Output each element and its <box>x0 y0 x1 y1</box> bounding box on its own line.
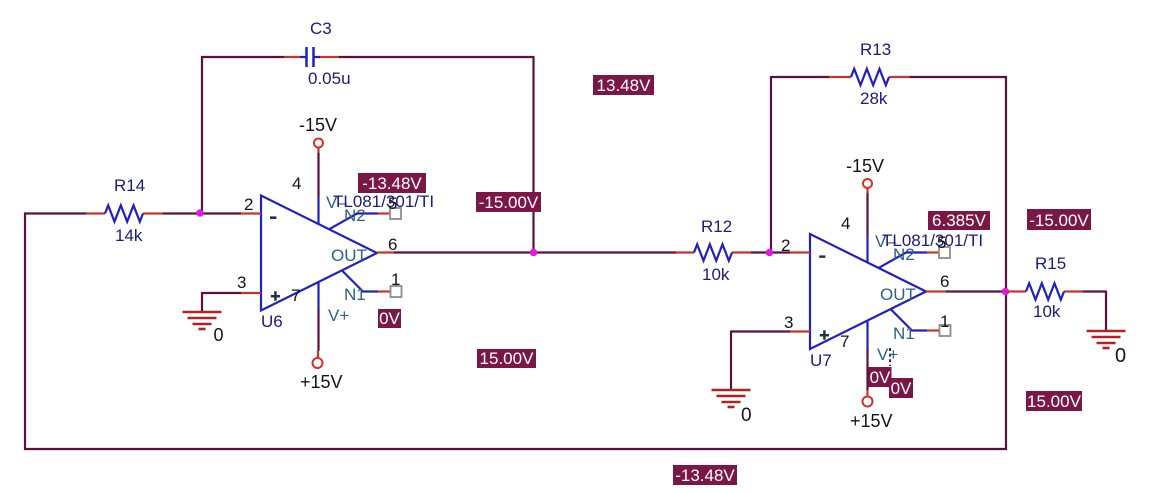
power +15V U6 bubble <box>313 358 323 368</box>
net voltage label -15.00V at U7 <box>1027 209 1091 230</box>
svg-text:6.385V: 6.385V <box>932 211 987 230</box>
svg-text:R13: R13 <box>860 40 891 59</box>
label U7 OUT <box>880 285 916 304</box>
net voltage label 0V second at U7 <box>889 378 913 398</box>
svg-text:-15.00V: -15.00V <box>1029 211 1089 230</box>
svg-text:+15V: +15V <box>850 411 893 431</box>
net voltage label -15.00V at U6 <box>476 192 541 212</box>
label 0 ground R15 <box>1115 345 1126 367</box>
svg-text:1: 1 <box>940 312 949 331</box>
label U7 N1 <box>893 324 915 343</box>
op-amp U7 pin1 terminal <box>940 325 951 336</box>
resistor R12 stubs <box>676 251 751 253</box>
svg-text:1: 1 <box>391 270 400 289</box>
svg-text:-13.48V: -13.48V <box>675 466 735 485</box>
label U6 V- pin name <box>326 193 347 212</box>
svg-text:-15.00V: -15.00V <box>479 193 539 212</box>
label U6 N2 <box>344 206 366 225</box>
label -15V U7 <box>846 156 884 176</box>
op-amp U7 input polarity marks <box>819 255 829 339</box>
junction node U6 output/C3 <box>530 249 537 256</box>
net voltage label 0V first at U7 <box>869 367 892 387</box>
pin number U6 7 <box>291 286 300 305</box>
power +15V U7 tick <box>866 390 868 397</box>
value 14k <box>115 226 143 245</box>
pin number U6 2 <box>244 195 253 214</box>
svg-text:R15: R15 <box>1035 254 1066 273</box>
op-amp U7 N2 pin line <box>878 253 939 269</box>
svg-text:4: 4 <box>292 174 301 193</box>
svg-text:N2: N2 <box>344 206 366 225</box>
ground at U7 pin3 <box>712 390 751 407</box>
pin number U7 6 <box>940 272 949 291</box>
svg-text:3: 3 <box>784 313 793 332</box>
svg-text:4: 4 <box>841 214 850 233</box>
svg-text:7: 7 <box>840 332 849 351</box>
wire W12 C3 right horizontal <box>339 56 535 58</box>
ground at R15 <box>1087 331 1126 348</box>
label U6 V+ <box>328 306 349 325</box>
value 28k <box>860 89 888 108</box>
svg-text:V+: V+ <box>877 345 898 364</box>
label R13 <box>860 40 891 59</box>
net voltage label -13.48V at U6 <box>358 173 426 193</box>
op-amp U7 power pin lines <box>866 234 868 349</box>
op-amp U6 pin3 stub <box>241 292 261 294</box>
pin number U7 1 <box>940 312 949 331</box>
svg-text:10k: 10k <box>1033 302 1061 321</box>
svg-text:13.48V: 13.48V <box>597 76 652 95</box>
wire W2 left rail vertical <box>24 213 26 451</box>
svg-text:0: 0 <box>741 405 752 426</box>
wire W14 R14 right to U6 pin2 <box>163 212 241 214</box>
pin number U7 3 <box>784 313 793 332</box>
pin number U7 5 <box>937 233 946 252</box>
wire W20 U7 V+ supply <box>866 349 868 391</box>
resistor R12 <box>694 244 732 260</box>
wire W7 R13 drop to R12 node <box>770 76 772 253</box>
value 10k R15 <box>1033 302 1061 321</box>
label U6 refdes <box>261 312 283 331</box>
svg-text:6: 6 <box>940 272 949 291</box>
wire W19 U7 V- supply <box>866 193 868 235</box>
label U6 OUT <box>331 246 367 265</box>
wire dashed leader U7 V+ probe <box>889 348 891 366</box>
label U6 N1 <box>344 285 366 304</box>
power +15V U7 bubble <box>863 397 873 407</box>
svg-text:0: 0 <box>214 325 224 345</box>
wire W10 C3 left horizontal <box>201 56 284 58</box>
label +15V U7 <box>850 411 893 431</box>
power -15V U7 tick <box>866 187 868 193</box>
label U6 part TL081/301/TI <box>333 192 434 211</box>
label U7 N2 <box>893 245 915 264</box>
resistor R13 stubs <box>829 76 910 78</box>
label U7 V+ <box>877 345 898 364</box>
wire W4 right rail vertical <box>1005 76 1007 450</box>
label R12 <box>701 217 732 236</box>
power -15V U7 bubble <box>863 179 872 188</box>
net voltage label 15.00V at U6 <box>477 349 536 368</box>
net voltage label 15.00V at U7 <box>1026 391 1082 411</box>
pin number U6 5 <box>388 194 397 213</box>
svg-text:OUT: OUT <box>880 285 916 304</box>
svg-text:0V: 0V <box>870 368 891 387</box>
svg-text:3: 3 <box>237 273 246 292</box>
junction node at R14/C3/pin2 <box>196 209 203 216</box>
label +15V U6 <box>300 372 343 392</box>
wire W17 U6 V+ supply <box>317 310 319 351</box>
value 10k R12 <box>702 265 730 284</box>
svg-text:-15V: -15V <box>299 115 337 135</box>
wire W1 left rail horizontal <box>24 212 86 214</box>
label U7 refdes <box>810 351 832 370</box>
svg-text:OUT: OUT <box>331 246 367 265</box>
wire W3 bottom feedback rail <box>24 448 1007 450</box>
svg-text:C3: C3 <box>310 19 332 38</box>
svg-text:U6: U6 <box>261 312 283 331</box>
op-amp U6 N2 pin line <box>329 214 390 230</box>
label U7 part TL081/301/TI <box>882 231 983 250</box>
wire W15 U6 pin3 to ground <box>202 292 241 311</box>
svg-text:0.05u: 0.05u <box>308 69 351 88</box>
svg-text:V+: V+ <box>328 306 349 325</box>
label 0 ground U7 <box>741 405 752 426</box>
svg-text:R12: R12 <box>701 217 732 236</box>
svg-text:14k: 14k <box>115 226 143 245</box>
op-amp U7 output stub <box>926 290 946 292</box>
op-amp U6 pin2 stub <box>241 212 261 214</box>
pin number U7 7 <box>840 332 849 351</box>
svg-text:-13.48V: -13.48V <box>362 174 422 193</box>
label R15 <box>1035 254 1066 273</box>
value 0.05u <box>308 69 351 88</box>
wire W18 U7 pin3 to ground <box>731 331 790 390</box>
svg-text:+15V: +15V <box>300 372 343 392</box>
svg-text:7: 7 <box>291 286 300 305</box>
junction node U7 output/R13/R15 <box>1002 288 1009 295</box>
pin number U7 4 <box>841 214 850 233</box>
op-amp U6 power pin lines <box>317 196 319 311</box>
op-amp U7 body <box>810 234 926 349</box>
op-amp U6 pin1 terminal <box>391 286 402 297</box>
resistor R13 <box>851 69 889 85</box>
net voltage label 13.48V <box>593 75 654 95</box>
op-amp U6 body <box>261 196 377 311</box>
pin number U6 1 <box>391 270 400 289</box>
wire W5 R13 right to right rail <box>910 76 1007 78</box>
svg-text:0V: 0V <box>891 379 912 398</box>
svg-text:N2: N2 <box>893 245 915 264</box>
svg-text:5: 5 <box>937 233 946 252</box>
pin number U6 3 <box>237 273 246 292</box>
svg-text:6: 6 <box>388 235 397 254</box>
svg-text:28k: 28k <box>860 89 888 108</box>
wire W21 U7 output to node <box>946 290 1006 292</box>
svg-text:U7: U7 <box>810 351 832 370</box>
svg-text:0V: 0V <box>379 309 400 328</box>
pin number U7 2 <box>781 236 790 255</box>
label U7 V- pin name <box>875 232 896 251</box>
pin number U6 6 <box>388 235 397 254</box>
capacitor C3 stubs <box>284 56 339 58</box>
resistor R14 stubs <box>86 212 163 214</box>
net voltage label 0V at U6 <box>378 309 401 328</box>
label R14 <box>114 176 145 195</box>
label C3 <box>310 19 332 38</box>
op-amp U7 pin3 stub <box>790 330 810 332</box>
op-amp U7 N1 pin line <box>891 310 939 331</box>
svg-text:15.00V: 15.00V <box>1027 392 1082 411</box>
wire W6 R13 left <box>770 76 829 78</box>
svg-text:2: 2 <box>244 195 253 214</box>
svg-text:N1: N1 <box>893 324 915 343</box>
svg-text:10k: 10k <box>702 265 730 284</box>
wire W9 R12 right to U7 pin2 <box>751 251 790 253</box>
op-amp U7 pin2 stub <box>790 251 810 253</box>
op-amp U6 input polarity marks <box>270 216 280 300</box>
wire W22 R15 right to ground <box>1083 291 1106 331</box>
svg-text:0: 0 <box>1115 345 1126 367</box>
op-amp U6 N1 pin line <box>342 271 390 292</box>
wire W16 U6 V- supply <box>317 152 319 197</box>
svg-text:N1: N1 <box>344 285 366 304</box>
power +15V U6 tick <box>317 350 319 358</box>
op-amp U6 output stub <box>377 251 394 253</box>
op-amp U7 pin5 terminal <box>939 247 950 258</box>
svg-text:R14: R14 <box>114 176 145 195</box>
svg-text:15.00V: 15.00V <box>480 349 535 368</box>
label 0 ground U6 <box>214 325 224 345</box>
resistor R15 <box>1026 283 1064 299</box>
svg-text:5: 5 <box>388 194 397 213</box>
resistor R15 stubs <box>1007 290 1083 292</box>
pin number U6 4 <box>292 174 301 193</box>
net voltage label -13.48V bottom <box>673 465 737 485</box>
label -15V U6 <box>299 115 337 135</box>
wire W8 U6 output to R12 <box>394 251 676 253</box>
capacitor C3 <box>300 47 320 67</box>
net voltage label 6.385V at U7 <box>928 211 990 230</box>
ground at U6 pin3 <box>183 312 222 329</box>
power -15V U6 bubble <box>314 139 323 148</box>
svg-text:2: 2 <box>781 236 790 255</box>
junction node R12/R13/U7 pin2 <box>766 249 773 256</box>
svg-text:-15V: -15V <box>846 156 884 176</box>
op-amp U6 pin5 terminal <box>390 208 401 219</box>
resistor R14 <box>105 205 143 221</box>
power -15V U6 tick <box>317 147 319 153</box>
wire W13 C3 right vertical <box>532 56 534 253</box>
wire W11 C3 left vertical <box>201 56 203 214</box>
